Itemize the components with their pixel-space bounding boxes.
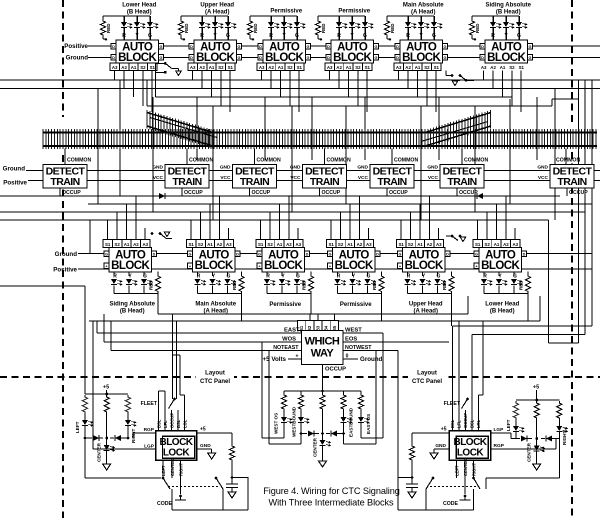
svg-text:S2: S2 bbox=[424, 65, 430, 70]
svg-text:R: R bbox=[113, 274, 117, 280]
svg-text:BLOCK: BLOCK bbox=[405, 260, 444, 272]
wires eastbound loop bbox=[344, 443, 377, 445]
svg-text:A1: A1 bbox=[347, 242, 353, 247]
svg-text:CTC Panel: CTC Panel bbox=[200, 379, 230, 385]
wire bus I mid-lower bbox=[89, 320, 540, 322]
LED G signal 4 top bbox=[364, 16, 366, 22]
switch SW1 top (between U1/U2) with ground bbox=[164, 62, 167, 65]
svg-text:RGP: RGP bbox=[144, 427, 155, 433]
wire occup drop U7 bbox=[566, 188, 568, 196]
terminal rise wires bottom row bbox=[107, 220, 109, 240]
module U21 BLOCK LOCK left bbox=[156, 431, 197, 461]
svg-text:CODE: CODE bbox=[443, 501, 459, 507]
svg-text:S1: S1 bbox=[434, 65, 440, 70]
wire bus A above track bbox=[0, 79, 600, 81]
LED G signal lower 2 bbox=[227, 272, 229, 276]
svg-text:A1: A1 bbox=[500, 65, 506, 70]
wire track common U6 bbox=[461, 149, 463, 165]
svg-text:G: G bbox=[529, 45, 532, 49]
svg-text:(A Head): (A Head) bbox=[411, 10, 435, 16]
LED Y signal lower 3 bbox=[281, 272, 283, 276]
turnout left (diagonal siding track) bbox=[147, 110, 213, 148]
capacitor C timing right bbox=[406, 483, 418, 485]
svg-text:(B Head): (B Head) bbox=[490, 309, 515, 315]
resistor R (RED) lower 1 bbox=[114, 293, 158, 295]
svg-text:TRAIN: TRAIN bbox=[447, 176, 476, 188]
svg-text:Positive: Positive bbox=[64, 43, 88, 50]
wires top pins U22 bbox=[451, 410, 453, 431]
module U1 DETECT TRAIN bbox=[43, 165, 87, 189]
svg-text:A3: A3 bbox=[366, 242, 372, 247]
terminal strip lower U6 (S1 S2 A1 A2 A3) bbox=[473, 240, 482, 248]
wire +5 volts which-way bbox=[288, 358, 302, 360]
svg-text:+: + bbox=[252, 38, 255, 44]
wire track common U2 bbox=[186, 149, 188, 165]
svg-text:VCC: VCC bbox=[428, 175, 439, 181]
svg-text:S1: S1 bbox=[365, 65, 371, 70]
wire rgp bbox=[133, 432, 156, 434]
wire bus H mid-lower bbox=[158, 313, 468, 315]
ground timing right bbox=[408, 492, 416, 498]
svg-text:G: G bbox=[513, 274, 517, 280]
svg-text:+: + bbox=[474, 38, 477, 44]
svg-text:BSL: BSL bbox=[156, 419, 161, 428]
wire track common U5 bbox=[391, 149, 393, 165]
pins G right U4 bbox=[374, 44, 379, 50]
svg-text:Lower Head: Lower Head bbox=[122, 3, 156, 9]
svg-text:Siding Absolute: Siding Absolute bbox=[110, 302, 156, 308]
svg-text:OCCUP: OCCUP bbox=[325, 367, 346, 373]
svg-text:D: D bbox=[481, 56, 484, 60]
svg-text:A1: A1 bbox=[417, 242, 423, 247]
LED G signal lower 5 bbox=[437, 272, 439, 276]
svg-text:With Three Intermediate Blocks: With Three Intermediate Blocks bbox=[269, 498, 395, 508]
ground U21 bbox=[208, 453, 216, 459]
svg-text:S2: S2 bbox=[484, 242, 490, 247]
LED R signal lower 6 bbox=[483, 272, 485, 276]
svg-text:R: R bbox=[407, 274, 411, 280]
LED WEST OS bbox=[283, 411, 285, 417]
wire occup drop U1 bbox=[59, 188, 61, 196]
dashed layout boundary right bbox=[571, 0, 573, 124]
wire WOS bbox=[104, 341, 302, 343]
left wrap verticals bbox=[84, 286, 86, 394]
svg-text:S2: S2 bbox=[140, 65, 146, 70]
svg-text:BLOCK: BLOCK bbox=[402, 52, 441, 64]
pins D left U1 bbox=[111, 44, 116, 50]
wire track common U1 bbox=[64, 149, 66, 165]
svg-text:COMMON: COMMON bbox=[556, 158, 580, 164]
which-way module U20 pin boxes IB1-IB5 bbox=[298, 321, 306, 331]
svg-text:Permissive: Permissive bbox=[338, 9, 370, 15]
wire indicator rail middle bbox=[284, 390, 361, 392]
svg-text:OCCUP: OCCUP bbox=[322, 190, 341, 196]
svg-text:Figure 4. Wiring for CTC Sign: Figure 4. Wiring for CTC Signaling bbox=[263, 486, 400, 496]
pins right lower U3 bbox=[305, 251, 310, 257]
pins G right U5 bbox=[443, 44, 448, 50]
svg-text:VCC: VCC bbox=[220, 175, 231, 181]
module lower U3 AUTO BLOCK bbox=[262, 248, 305, 273]
vertical drops from lower modules bbox=[157, 294, 159, 315]
resistor right cluster x536.7 bbox=[534, 401, 539, 420]
diode D3 middle-left bbox=[300, 432, 303, 435]
svg-text:RIGHT: RIGHT bbox=[472, 463, 477, 476]
resistor R6 (RED) top bbox=[471, 16, 473, 19]
ground right cluster bbox=[533, 464, 541, 470]
svg-text:COMMON: COMMON bbox=[327, 158, 351, 164]
svg-text:RIGHT: RIGHT bbox=[562, 431, 567, 445]
svg-text:G: G bbox=[143, 274, 147, 280]
svg-text:BLOCK: BLOCK bbox=[159, 437, 193, 448]
pins G right U1 bbox=[159, 44, 164, 50]
svg-text:A3: A3 bbox=[226, 242, 232, 247]
resistor right cluster x516 bbox=[513, 401, 518, 420]
LED R signal lower 2 bbox=[197, 272, 199, 276]
svg-text:VCC: VCC bbox=[358, 175, 369, 181]
svg-text:BLOCK: BLOCK bbox=[118, 52, 157, 64]
diode D4 middle-right bbox=[326, 433, 330, 435]
svg-text:D: D bbox=[190, 56, 193, 60]
wire code loop right bbox=[398, 477, 412, 479]
wire +5 right of U21 bbox=[197, 432, 232, 434]
wire rgp right bbox=[492, 448, 556, 450]
switch code group right bbox=[432, 477, 435, 480]
svg-text:G: G bbox=[189, 252, 192, 256]
LED G signal 3 top bbox=[296, 16, 298, 22]
wire ground bus top bbox=[88, 57, 600, 59]
LED Y signal 4 top bbox=[351, 16, 353, 22]
LED Y signal 1 top bbox=[136, 16, 138, 22]
module lower U4 AUTO BLOCK bbox=[333, 248, 376, 273]
wire right led loop to code bbox=[486, 477, 559, 479]
svg-text:A2: A2 bbox=[199, 65, 205, 70]
svg-text:D: D bbox=[376, 252, 379, 256]
svg-text:A2: A2 bbox=[133, 242, 139, 247]
svg-text:LFL: LFL bbox=[457, 420, 462, 428]
svg-text:LEFT: LEFT bbox=[506, 419, 511, 431]
svg-text:CENTER: CENTER bbox=[463, 459, 468, 476]
resistor R timing right bbox=[411, 433, 413, 444]
LED G signal lower 3 bbox=[296, 272, 298, 276]
pins right lower U2 bbox=[235, 251, 240, 257]
svg-text:Permissive: Permissive bbox=[340, 302, 372, 308]
svg-text:CODE: CODE bbox=[157, 501, 173, 507]
svg-text:BSL: BSL bbox=[470, 419, 475, 428]
LED Y signal lower 1 bbox=[128, 272, 130, 276]
svg-text:LOCK: LOCK bbox=[457, 448, 485, 459]
module U6 DETECT TRAIN bbox=[440, 165, 484, 189]
svg-text:R: R bbox=[197, 274, 201, 280]
svg-text:RED: RED bbox=[519, 280, 524, 290]
svg-text:R: R bbox=[337, 274, 341, 280]
resistor right cluster x559.3 bbox=[557, 401, 562, 420]
svg-text:TRAIN: TRAIN bbox=[50, 176, 79, 188]
wire led feed top U4 bbox=[318, 15, 365, 17]
wire WEST bbox=[343, 332, 383, 334]
wire center junction middle bbox=[322, 411, 324, 434]
svg-text:(A Head): (A Head) bbox=[205, 10, 229, 16]
terminal strip U5 top (A3 A2 A1 S2 S1) bbox=[394, 63, 403, 71]
vertical wires IB feeds bbox=[301, 320, 303, 323]
svg-text:+: + bbox=[183, 38, 186, 44]
svg-text:RED: RED bbox=[253, 23, 258, 33]
svg-text:G: G bbox=[296, 274, 300, 280]
op-amp module U4 AUTO BLOCK top bbox=[331, 40, 374, 63]
svg-text:RED: RED bbox=[390, 23, 395, 33]
svg-text:FLEET: FLEET bbox=[444, 401, 461, 407]
wire bus G below detect bbox=[0, 219, 549, 221]
LED R signal 2 top bbox=[201, 16, 203, 22]
svg-text:D: D bbox=[396, 45, 399, 49]
svg-text:BLOCK: BLOCK bbox=[195, 260, 234, 272]
wire gnd right of U21 bbox=[197, 448, 212, 450]
wire indicator rail left bbox=[85, 393, 128, 395]
svg-text:A1: A1 bbox=[131, 65, 137, 70]
svg-text:OCCUP: OCCUP bbox=[169, 413, 174, 428]
svg-text:A1: A1 bbox=[278, 65, 284, 70]
svg-text:R: R bbox=[483, 274, 487, 280]
wire led feed top U3 bbox=[250, 15, 297, 17]
svg-text:D: D bbox=[112, 45, 115, 49]
svg-text:A3: A3 bbox=[327, 65, 333, 70]
svg-text:A2: A2 bbox=[357, 242, 363, 247]
svg-text:A2: A2 bbox=[405, 65, 411, 70]
svg-text:+5: +5 bbox=[103, 385, 109, 391]
svg-text:A3: A3 bbox=[436, 242, 442, 247]
svg-text:GND: GND bbox=[537, 165, 548, 171]
svg-text:CENTER: CENTER bbox=[527, 442, 532, 462]
svg-text:BLOCK: BLOCK bbox=[111, 260, 150, 272]
LED R signal 1 top bbox=[123, 16, 125, 22]
svg-text:A3: A3 bbox=[295, 242, 301, 247]
wire bus D above track bbox=[147, 105, 552, 107]
svg-text:S2: S2 bbox=[287, 65, 293, 70]
LED CENTER middle bbox=[322, 434, 324, 441]
terminal strip lower U2 (S1 S2 A1 A2 A3) bbox=[187, 240, 196, 248]
svg-text:+5: +5 bbox=[533, 385, 539, 391]
pins D left U2 bbox=[189, 44, 194, 50]
svg-text:R: R bbox=[491, 33, 495, 39]
wire bus F below detect bbox=[0, 211, 585, 213]
LED G signal lower 4 bbox=[367, 272, 369, 276]
svg-text:A2: A2 bbox=[490, 65, 496, 70]
diode D2 on occup bus bbox=[477, 193, 483, 199]
module lower U2 AUTO BLOCK bbox=[193, 248, 236, 273]
svg-text:(B Head): (B Head) bbox=[120, 309, 145, 315]
svg-text:Positive: Positive bbox=[3, 180, 27, 187]
module lower U1 AUTO BLOCK bbox=[109, 248, 152, 273]
svg-text:D: D bbox=[259, 56, 262, 60]
resistor middle cluster x361 bbox=[360, 391, 362, 393]
svg-text:D: D bbox=[523, 252, 526, 256]
resistor left cluster x85 bbox=[82, 395, 87, 414]
pins G right U6 bbox=[528, 44, 533, 50]
pins left lower U5 bbox=[398, 251, 403, 257]
svg-text:WAY: WAY bbox=[311, 348, 335, 360]
svg-text:R: R bbox=[122, 33, 126, 39]
wire ground bus bottom row bbox=[78, 253, 592, 255]
svg-text:BLOCK: BLOCK bbox=[335, 260, 374, 272]
svg-text:S2: S2 bbox=[218, 65, 224, 70]
svg-text:RIGHT: RIGHT bbox=[179, 463, 184, 476]
wire led feed top U2 bbox=[181, 15, 228, 17]
ground timing left bbox=[228, 492, 236, 498]
svg-text:A3: A3 bbox=[481, 65, 487, 70]
pins D left U4 bbox=[326, 44, 331, 50]
wires bottom pins U22 LEFT/CENTER/RIGHT bbox=[456, 460, 458, 478]
svg-text:+5 Volts: +5 Volts bbox=[263, 356, 287, 363]
svg-text:TRAIN: TRAIN bbox=[240, 176, 269, 188]
svg-text:S2: S2 bbox=[509, 65, 515, 70]
svg-text:G: G bbox=[307, 45, 310, 49]
resistor R4 (RED) top bbox=[317, 16, 319, 19]
ground left cluster bbox=[103, 464, 111, 470]
wire track common U4 bbox=[324, 149, 326, 165]
LED RIGHT left-cluster bbox=[127, 414, 129, 420]
resistor middle cluster x301 bbox=[300, 391, 302, 393]
LED R signal 5 top bbox=[407, 16, 409, 22]
svg-text:A2: A2 bbox=[336, 65, 342, 70]
wire OCCUP which-way bbox=[322, 365, 324, 392]
svg-text:A1: A1 bbox=[415, 65, 421, 70]
svg-text:BLOCK: BLOCK bbox=[265, 52, 304, 64]
resistor R (RED) lower 5 bbox=[408, 293, 452, 295]
svg-text:EAST: EAST bbox=[284, 328, 300, 334]
svg-text:A1: A1 bbox=[209, 65, 215, 70]
wire lgp bbox=[93, 448, 156, 450]
svg-text:OCCUP: OCCUP bbox=[252, 190, 271, 196]
module U5 DETECT TRAIN bbox=[370, 165, 414, 189]
svg-text:A3: A3 bbox=[112, 65, 118, 70]
svg-text:RED: RED bbox=[232, 280, 237, 290]
pins left lower U2 bbox=[188, 251, 193, 257]
svg-text:BSL: BSL bbox=[450, 419, 455, 428]
svg-text:TRAIN: TRAIN bbox=[557, 176, 586, 188]
svg-text:RED: RED bbox=[372, 280, 377, 290]
svg-text:VCC: VCC bbox=[153, 175, 164, 181]
svg-text:G: G bbox=[160, 56, 163, 60]
svg-text:LGP: LGP bbox=[144, 444, 155, 450]
diode D6 left cluster bbox=[110, 437, 114, 439]
LED R signal 6 top bbox=[492, 16, 494, 22]
wire occup bus bbox=[0, 195, 560, 197]
svg-text:WESTBOUND: WESTBOUND bbox=[292, 406, 297, 437]
wire NOTWEST bbox=[343, 350, 398, 352]
svg-text:GND: GND bbox=[200, 443, 211, 449]
svg-text:NOTEAST: NOTEAST bbox=[273, 345, 299, 351]
wire bus B above track bbox=[0, 88, 600, 90]
resistor R (RED) lower 6 bbox=[484, 293, 528, 295]
svg-text:+: + bbox=[320, 38, 323, 44]
svg-text:A2: A2 bbox=[268, 65, 274, 70]
svg-text:G: G bbox=[258, 252, 261, 256]
svg-text:BLOCK: BLOCK bbox=[264, 260, 303, 272]
svg-text:R: R bbox=[406, 33, 410, 39]
svg-text:LRL: LRL bbox=[476, 419, 481, 428]
resistor R (RED) lower 2 bbox=[198, 293, 242, 295]
svg-text:A3: A3 bbox=[259, 65, 265, 70]
resistor left cluster x128 bbox=[125, 395, 130, 414]
LED G signal 5 top bbox=[433, 16, 435, 22]
wires east os loop bbox=[361, 437, 383, 439]
LED Y signal 6 top bbox=[505, 16, 507, 22]
svg-text:Layout: Layout bbox=[417, 371, 437, 377]
svg-text:A2: A2 bbox=[286, 242, 292, 247]
wire gnd/vcc chain U6-U7 bbox=[484, 170, 550, 172]
svg-text:BLOCK: BLOCK bbox=[481, 260, 520, 272]
LED G signal lower 1 bbox=[143, 272, 145, 276]
wire ground which-way bbox=[343, 358, 358, 360]
svg-text:OCCUP: OCCUP bbox=[62, 190, 81, 196]
terminal strip U3 top (A3 A2 A1 S2 S1) bbox=[257, 63, 266, 71]
svg-text:D: D bbox=[112, 56, 115, 60]
LED Y signal lower 6 bbox=[498, 272, 500, 276]
svg-text:G: G bbox=[227, 274, 231, 280]
svg-text:BLOCK: BLOCK bbox=[196, 52, 235, 64]
wires bottom pins U21 LEFT/CENTER/RIGHT bbox=[162, 460, 164, 478]
svg-text:Upper Head: Upper Head bbox=[200, 3, 234, 9]
svg-text:+: + bbox=[296, 354, 299, 360]
svg-text:RED: RED bbox=[184, 23, 189, 33]
wire bus K right staircase bbox=[472, 334, 585, 336]
svg-text:S2: S2 bbox=[408, 242, 414, 247]
wire left led loop to code bbox=[85, 477, 161, 479]
wire gnd/vcc chain U1-U2 bbox=[87, 170, 165, 172]
pins left lower U3 bbox=[257, 251, 262, 257]
svg-text:CENTER: CENTER bbox=[170, 459, 175, 476]
LED WESTBOUND bbox=[300, 411, 302, 417]
module U3 DETECT TRAIN bbox=[233, 165, 277, 189]
svg-text:G: G bbox=[399, 252, 402, 256]
wire gnd/vcc chain U2-U3 bbox=[209, 170, 233, 172]
svg-text:GND: GND bbox=[435, 443, 446, 449]
svg-text:COMMON: COMMON bbox=[189, 158, 213, 164]
svg-text:Permissive: Permissive bbox=[270, 9, 302, 15]
diode D1 on occup bus bbox=[159, 193, 165, 199]
svg-text:OCCUP: OCCUP bbox=[389, 190, 408, 196]
svg-text:D: D bbox=[481, 45, 484, 49]
svg-text:GND: GND bbox=[357, 165, 368, 171]
diode D7 right cluster bbox=[515, 432, 517, 439]
svg-text:D: D bbox=[236, 252, 239, 256]
svg-text:RED: RED bbox=[442, 280, 447, 290]
svg-text:RED: RED bbox=[149, 280, 154, 290]
LED G signal 1 top bbox=[149, 16, 151, 22]
svg-text:0: 0 bbox=[346, 354, 349, 360]
terminal strip lower U1 (S1 S2 A1 A2 A3) bbox=[103, 240, 112, 248]
LED CENTER right-cluster bbox=[536, 420, 538, 439]
svg-text:A1: A1 bbox=[207, 242, 213, 247]
LED EAST OS bbox=[360, 411, 362, 417]
svg-text:Upper Head: Upper Head bbox=[409, 302, 443, 308]
svg-text:G: G bbox=[295, 33, 299, 39]
svg-text:R: R bbox=[266, 274, 270, 280]
svg-text:Main Absolute: Main Absolute bbox=[195, 302, 236, 308]
svg-text:FLEET: FLEET bbox=[141, 401, 158, 407]
svg-text:EASTBOUND: EASTBOUND bbox=[349, 407, 354, 437]
svg-text:S2: S2 bbox=[198, 242, 204, 247]
svg-text:Ground: Ground bbox=[66, 55, 89, 62]
svg-text:WHICH: WHICH bbox=[305, 336, 340, 348]
resistor R3 (RED) top bbox=[249, 16, 251, 19]
wire track common U3 bbox=[254, 149, 256, 165]
svg-text:LFL: LFL bbox=[163, 420, 168, 428]
wires top pins U21 bbox=[158, 410, 160, 431]
svg-text:D: D bbox=[190, 45, 193, 49]
svg-text:S2: S2 bbox=[267, 242, 273, 247]
svg-text:VCC: VCC bbox=[290, 175, 301, 181]
terminal drop wires top row bbox=[114, 71, 116, 81]
